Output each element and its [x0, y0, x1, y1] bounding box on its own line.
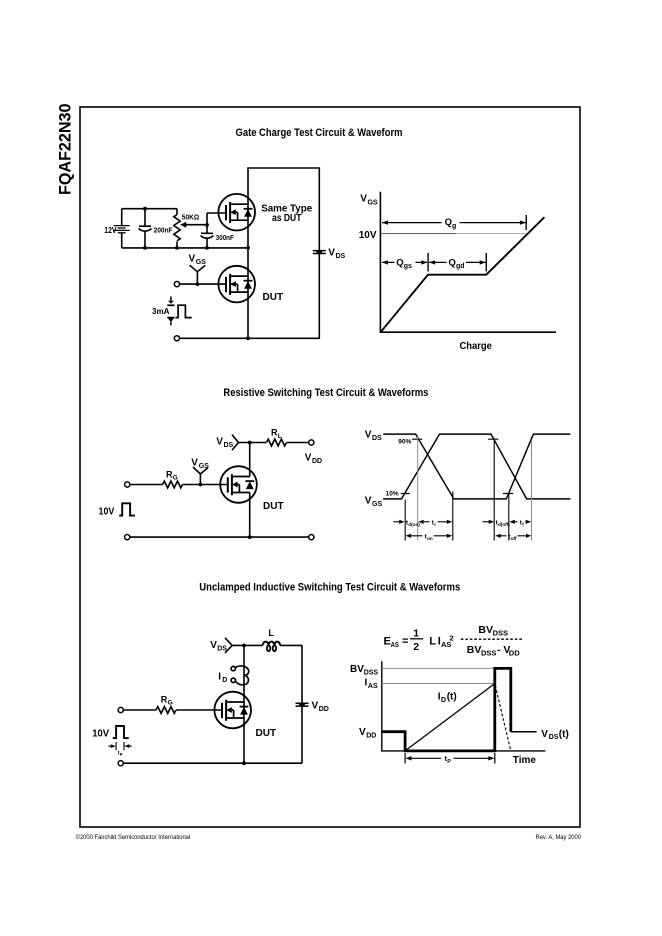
wire: 300nF lower lead: [206, 238, 208, 248]
gray timing verticals: [418, 435, 532, 541]
svg-text:gd: gd: [456, 263, 465, 270]
resistor RG circuit2: [163, 481, 183, 488]
svg-text:(t): (t): [559, 729, 569, 740]
svg-text:V: V: [189, 253, 196, 264]
svg-text:DS: DS: [336, 253, 346, 260]
terminal bottom circuit3: [118, 761, 123, 766]
svg-text:off: off: [511, 536, 517, 541]
mosfet DUT circuit3: [214, 692, 251, 729]
timing row1: td(off): [483, 521, 490, 523]
svg-text:Q: Q: [445, 217, 452, 228]
svg-text:V: V: [365, 496, 372, 507]
vdd measure symbol circuit3: [296, 703, 309, 708]
Qgs arrows: [382, 261, 427, 263]
probe VDS circuit2: [232, 435, 239, 451]
Qg arrow line: [382, 222, 526, 224]
terminal: gate input: [174, 282, 179, 287]
svg-text:P: P: [120, 752, 123, 757]
svg-text:10V: 10V: [359, 230, 377, 241]
probe VDS circuit3: [225, 638, 232, 653]
junction dots circuit 1: [143, 207, 250, 340]
svg-text:DS: DS: [224, 442, 234, 449]
svg-text:V: V: [328, 247, 335, 258]
svg-text:DS: DS: [549, 734, 559, 741]
svg-text:d(off): d(off): [498, 522, 510, 527]
svg-text:DD: DD: [509, 649, 520, 658]
svg-text:V: V: [191, 457, 198, 468]
svg-text:V: V: [365, 430, 372, 441]
svg-text:Gate Charge Test Circuit & Wav: Gate Charge Test Circuit & Waveform: [236, 127, 403, 139]
wire: 300nF branch vertical: [206, 213, 208, 233]
probe VGS circuit2: [193, 467, 208, 485]
svg-text:3mA: 3mA: [152, 307, 170, 316]
wire: top rail to RL: [239, 442, 267, 444]
axes waveform3: [382, 661, 546, 751]
svg-text:BV: BV: [467, 644, 482, 656]
wire: 200nF branch upper: [144, 209, 146, 227]
terminal VDD circuit2: [309, 440, 314, 445]
ID decay dashed: [495, 686, 511, 751]
tP ticks waveform3: [405, 753, 495, 764]
potentiometer 50K body: [174, 215, 180, 241]
potentiometer wiper arrow: [180, 222, 186, 228]
svg-text:DSS: DSS: [493, 628, 508, 637]
svg-text:AS: AS: [368, 683, 378, 690]
terminal bottom right circuit2: [309, 535, 314, 540]
svg-text:DD: DD: [312, 458, 322, 465]
svg-text:=: =: [402, 636, 408, 648]
svg-text:DUT: DUT: [256, 728, 277, 739]
svg-text:GS: GS: [368, 199, 378, 206]
svg-text:DD: DD: [319, 706, 329, 713]
svg-text:50KΩ: 50KΩ: [182, 212, 199, 221]
gate charge curve: [381, 217, 545, 332]
svg-text:g: g: [452, 223, 456, 230]
svg-text:V: V: [210, 640, 217, 651]
capacitor 300nF: [201, 233, 214, 238]
svg-text:DD: DD: [366, 733, 376, 740]
wire: RG to gate circuit3: [176, 709, 222, 711]
wire: inductor to right rail: [280, 644, 302, 646]
tick Qgs/Qgd: [427, 253, 429, 271]
wire: 12V branch upper: [121, 209, 123, 226]
wire: drain/source vertical: [243, 645, 245, 763]
svg-text:DSS: DSS: [481, 649, 496, 658]
svg-text:DSS: DSS: [364, 669, 379, 676]
probe VGS circuit1: [190, 265, 206, 284]
terminal bottom left circuit2: [125, 535, 130, 540]
svg-text:300nF: 300nF: [216, 233, 234, 242]
junction dots circuit3: [242, 644, 246, 766]
svg-text:V: V: [360, 193, 367, 204]
svg-text:GS: GS: [199, 463, 209, 470]
svg-text:Q: Q: [449, 257, 456, 268]
page frame: [80, 107, 580, 827]
svg-text:DS: DS: [217, 645, 227, 652]
VGS trace: [383, 434, 570, 499]
svg-text:GS: GS: [196, 259, 206, 266]
svg-text:DS: DS: [372, 435, 382, 442]
svg-text:2: 2: [450, 633, 454, 642]
svg-text:gs: gs: [404, 263, 412, 270]
current source pulse glyph: [175, 305, 191, 317]
resistor RG circuit3: [156, 707, 176, 714]
tick Qgd end: [485, 253, 487, 271]
wire: bottom rail to box: [180, 337, 249, 339]
svg-text:V: V: [216, 437, 223, 448]
potentiometer 50K lower lead: [176, 242, 178, 248]
wire: RG to gate: [183, 484, 228, 486]
svg-text:BV: BV: [478, 624, 493, 636]
svg-text:12V: 12V: [104, 225, 116, 235]
svg-text:200nF: 200nF: [154, 226, 173, 235]
battery 12V: [114, 226, 130, 233]
inductor L: [263, 642, 280, 646]
wire: 200nF branch lower: [144, 231, 146, 248]
tP arrows circuit3: [108, 745, 110, 747]
wire: RL to VDD terminal: [287, 442, 309, 444]
svg-text:90%: 90%: [398, 438, 411, 445]
terminal gate circuit3: [118, 707, 123, 712]
svg-text:V: V: [541, 729, 548, 740]
svg-text:Resistive Switching Test Circu: Resistive Switching Test Circuit & Wavef…: [223, 387, 428, 399]
current probe ID: [231, 666, 249, 685]
gridline IAS: [382, 683, 495, 685]
wire: gate input to RG: [130, 484, 163, 486]
timing row1: tr: [418, 520, 424, 524]
svg-text:Time: Time: [513, 755, 537, 766]
svg-text:L: L: [278, 433, 282, 440]
timing row1: tf: [509, 520, 515, 524]
wire: wiper to 300nF node: [186, 224, 207, 226]
svg-text:AS: AS: [391, 640, 399, 649]
timing row1: td(on): [393, 521, 399, 523]
svg-text:d(on): d(on): [408, 522, 420, 527]
svg-text:on: on: [427, 536, 433, 541]
current source 3mA arrows: [167, 296, 174, 325]
svg-text:2: 2: [413, 641, 419, 653]
tick Qg end: [525, 215, 527, 230]
gridline BVDSS: [382, 667, 495, 669]
mosfet Q1 (Same Type as DUT): [218, 194, 255, 231]
svg-text:Unclamped Inductive Switching: Unclamped Inductive Switching Test Circu…: [199, 581, 460, 593]
wire: bottom rail: [130, 536, 309, 538]
svg-text:10V: 10V: [99, 507, 115, 518]
tP ticks circuit3: [116, 742, 124, 750]
svg-text:L: L: [268, 628, 274, 638]
wire: drain vertical: [249, 443, 251, 477]
VDS thick trace: [382, 668, 511, 751]
svg-text:10%: 10%: [386, 491, 399, 498]
svg-text:r: r: [434, 522, 436, 527]
VDS trace: [383, 434, 570, 499]
axes waveform1: [380, 192, 556, 332]
black timing verticals: [405, 440, 509, 541]
mosfet DUT: [218, 266, 255, 303]
svg-text:I: I: [218, 671, 221, 682]
wire: gate input to RG circuit3: [123, 709, 156, 711]
wire: top rail left group: [122, 208, 177, 210]
potentiometer 50K upper lead: [176, 209, 178, 215]
svg-text:V: V: [312, 701, 319, 712]
wire: DUT box: [248, 168, 319, 338]
svg-text:BV: BV: [350, 664, 364, 675]
wire: source vertical: [249, 492, 251, 537]
wire: lower gate wire: [180, 283, 226, 285]
svg-text:1: 1: [413, 628, 419, 640]
svg-text:as DUT: as DUT: [272, 213, 302, 224]
capacitor 200nF: [139, 226, 152, 231]
gridline 10V: [381, 233, 456, 235]
svg-text:DUT: DUT: [263, 292, 284, 303]
90% ticks: [412, 438, 498, 440]
wire: VDS stub to top rail: [232, 644, 263, 646]
svg-text:10V: 10V: [92, 728, 109, 739]
svg-text:V: V: [359, 727, 366, 738]
svg-text:Q: Q: [396, 257, 403, 268]
pulse glyph circuit2: [119, 503, 135, 515]
terminal gate circuit2: [125, 482, 130, 487]
timing row2: toff: [495, 534, 501, 538]
mosfet DUT circuit2: [220, 466, 257, 503]
svg-text:G: G: [168, 700, 173, 707]
junction dots circuit2: [199, 441, 252, 539]
svg-text:D: D: [441, 697, 446, 704]
svg-text:FQAF22N30: FQAF22N30: [56, 104, 74, 196]
svg-text:Charge: Charge: [459, 340, 492, 352]
svg-text:V: V: [305, 452, 312, 463]
svg-text:©2000 Fairchild Semiconductor: ©2000 Fairchild Semiconductor Internatio…: [76, 834, 191, 841]
svg-text:D: D: [222, 677, 227, 684]
pulse glyph circuit3: [113, 726, 129, 738]
svg-text:P: P: [447, 759, 451, 765]
resistor RL: [266, 439, 286, 446]
tP arrows waveform3: [406, 756, 412, 760]
Qgd arrows: [429, 261, 485, 263]
wire: right vertical with VDD: [301, 645, 303, 763]
svg-text:(t): (t): [447, 691, 457, 702]
wire: bottom rail circuit3: [123, 762, 302, 764]
vds measure symbol circuit1: [313, 251, 326, 256]
svg-text:G: G: [173, 475, 178, 482]
terminal: bottom: [174, 336, 179, 341]
svg-text:L: L: [429, 636, 436, 648]
timing row2: ton: [406, 534, 412, 538]
wire: gate of upper MOSFET: [207, 212, 226, 214]
10% ticks: [401, 493, 513, 495]
wire: bottom rail left group: [122, 247, 248, 249]
VDS tail thin: [511, 731, 537, 733]
svg-text:GS: GS: [372, 501, 382, 508]
ID ramp: [405, 684, 495, 751]
svg-text:Rev. A, May 2000: Rev. A, May 2000: [536, 834, 582, 841]
svg-text:DUT: DUT: [263, 501, 284, 512]
wire: 12V branch lower: [121, 233, 123, 248]
